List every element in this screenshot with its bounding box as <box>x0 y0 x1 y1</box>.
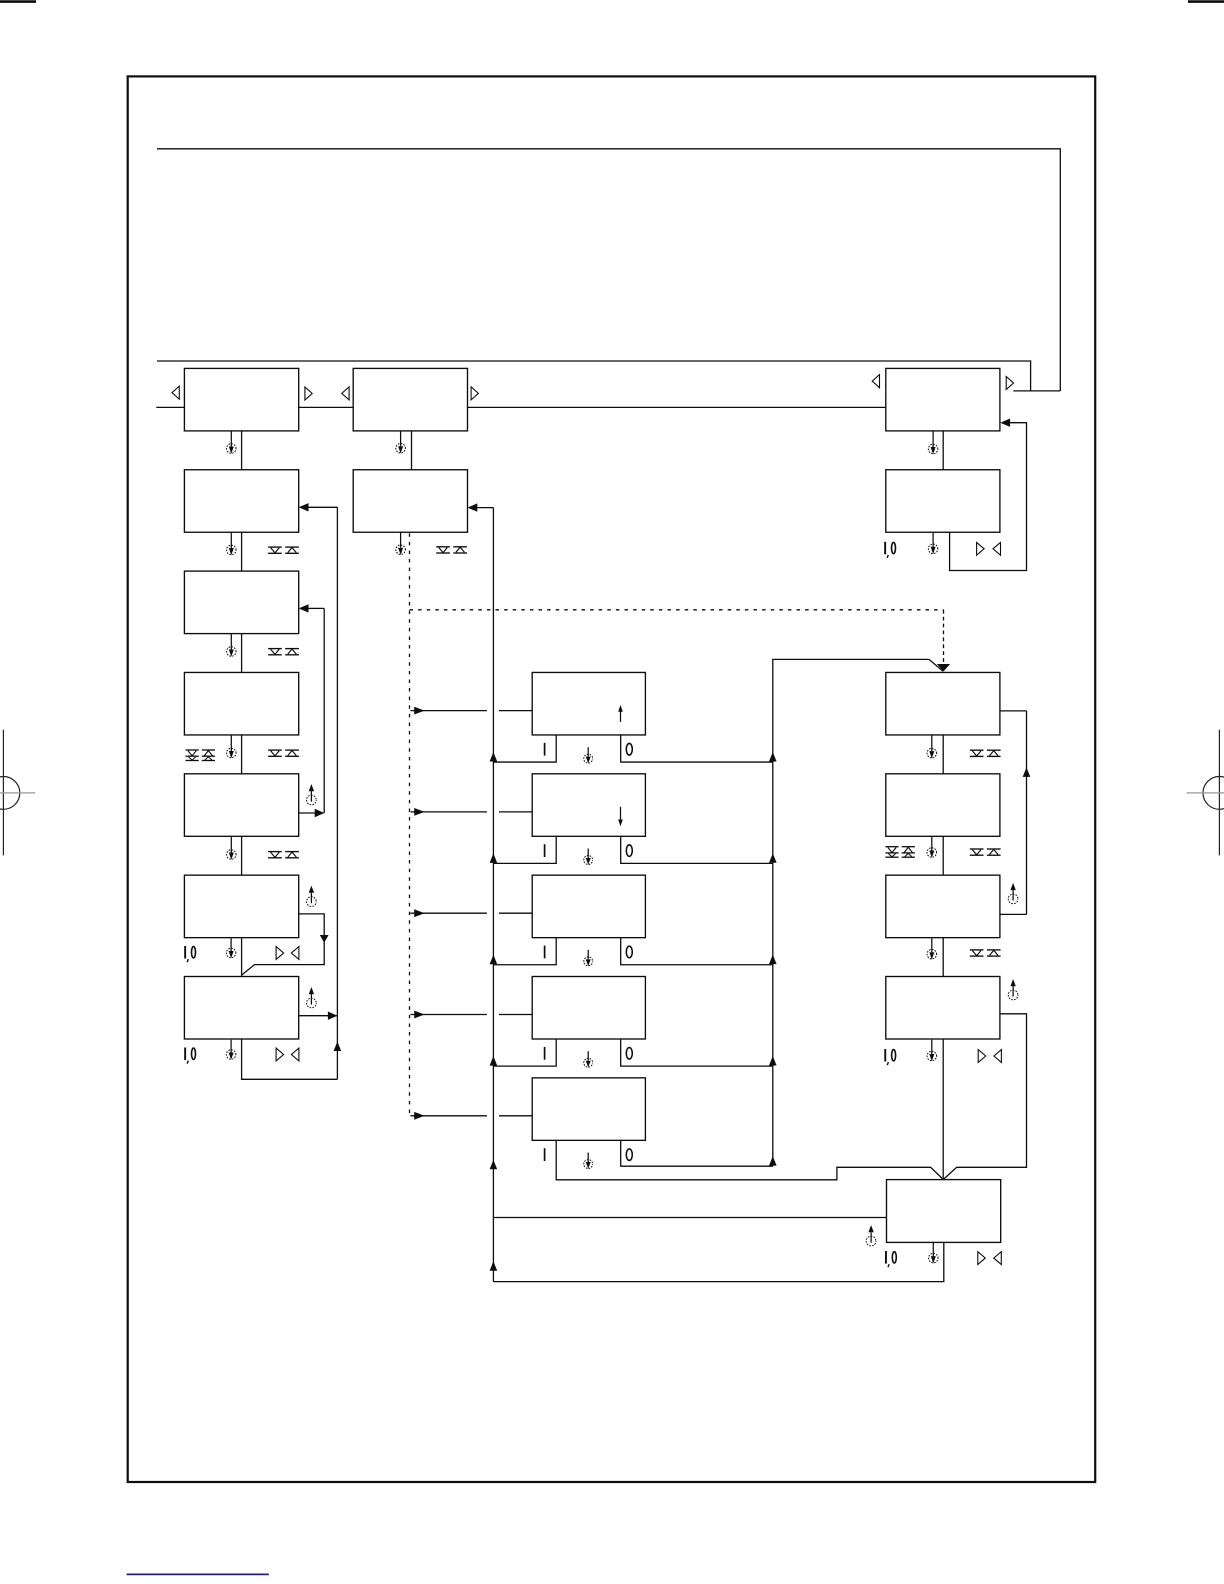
registration mark left <box>0 730 35 856</box>
key up below R5 <box>987 950 1001 956</box>
press icon below R4 <box>927 837 937 858</box>
label I below C1 <box>544 743 546 756</box>
key up below M2 <box>453 547 467 553</box>
box MENU1 <box>184 368 298 431</box>
key up below R4 <box>987 849 1001 855</box>
wire R2 loop to MENU3 <box>950 419 1027 571</box>
press icon below C1 <box>584 747 593 763</box>
key up below L4 <box>285 750 299 756</box>
box R5 <box>886 875 1000 938</box>
wire wrap-around top <box>157 149 1060 391</box>
wire return into L3 <box>299 604 325 612</box>
wire I-stub C5 to SETUP funnel <box>556 1140 943 1179</box>
wire feedback L7-L2 vertical <box>334 507 342 1079</box>
wire 0-stub C2 <box>621 836 773 863</box>
wire L3-L4 <box>241 634 243 673</box>
key up below L3 <box>285 649 299 655</box>
box L4 <box>184 672 298 735</box>
pull icon right of L5 <box>307 784 317 805</box>
wire return into M2 <box>468 503 494 511</box>
key down below L3 <box>268 649 282 655</box>
box L7 <box>184 977 298 1040</box>
pull icon right of L7 <box>307 987 317 1008</box>
box MENU2 <box>353 368 467 431</box>
wire R6 exit to SETUP funnel <box>943 1014 1026 1180</box>
box M2 <box>353 470 467 533</box>
box C1 <box>532 672 645 735</box>
wire MENU1-L2 <box>241 431 243 470</box>
wire SETUP bottom loop <box>493 1242 943 1281</box>
double key down below L4 <box>186 750 199 761</box>
wire return into L2 <box>299 503 338 511</box>
wire L6 exit loop to L7 <box>242 914 329 975</box>
press icon below C5 <box>584 1153 593 1169</box>
key down below L5 <box>268 852 282 858</box>
press icon below SETUP <box>929 1243 939 1263</box>
press icon below MENU1 <box>227 431 237 454</box>
box R4 <box>886 774 1000 837</box>
wire 0-stub C5 <box>621 1140 773 1166</box>
press icon below L5 <box>227 836 237 860</box>
wire stub left of MENU1 <box>156 406 184 408</box>
key right below R2 <box>977 542 985 555</box>
wire L7 exit to feedback <box>299 1012 338 1020</box>
pull icon right of L6 <box>307 886 317 907</box>
press icon below C4 <box>584 1051 593 1067</box>
box C3 <box>532 875 645 938</box>
key left below L7 <box>291 1048 299 1061</box>
key left below SETUP <box>994 1252 1002 1265</box>
wire big return vertical to M2 <box>490 508 498 1282</box>
box L6 <box>184 875 298 938</box>
wire L5 exit to feedback <box>299 809 325 817</box>
key left MENU2 <box>342 387 349 400</box>
wire menu overline <box>157 361 1031 391</box>
wire feedback L5-L3 vertical <box>323 608 325 813</box>
box R3 <box>886 672 1000 735</box>
key left below R2 <box>993 542 1001 555</box>
wire R6-SETUP <box>942 1039 944 1180</box>
press icon below C3 <box>584 950 593 966</box>
registration mark right <box>1187 730 1224 856</box>
wire return into SETUP left <box>493 1217 886 1219</box>
label I,0 below L7 <box>185 1048 195 1064</box>
key up below L2 <box>285 547 299 553</box>
key down below M2 <box>436 547 450 553</box>
wire feedback R5-R3 vertical <box>1023 711 1031 915</box>
crop mark top-right <box>1188 0 1224 3</box>
flow arrow on 0-collector C3 <box>769 955 777 965</box>
press icon below L4 <box>227 735 237 758</box>
double key up below L4 <box>202 750 215 761</box>
crop mark top-left <box>0 0 36 3</box>
key up below R3 <box>987 750 1001 756</box>
box R2 <box>886 470 1000 533</box>
footer rule (blue) <box>127 1573 269 1575</box>
wire branch to C2 <box>411 808 533 816</box>
key down below R3 <box>970 750 984 756</box>
press icon below MENU3 <box>928 431 938 454</box>
pull icon left of SETUP <box>866 1225 876 1246</box>
wire dashed spine below M2 <box>409 533 411 1116</box>
key left MENU3 <box>872 375 879 388</box>
press icon below R2 <box>928 533 938 554</box>
pull icon right of R5 <box>1008 883 1018 904</box>
box L3 <box>184 571 298 634</box>
box R6 <box>886 977 1000 1040</box>
press icon below R6 <box>927 1040 937 1062</box>
box SETUP <box>887 1180 1001 1243</box>
box MENU3 <box>886 368 1000 431</box>
label I below C3 <box>544 946 546 959</box>
flow arrow on 0-collector C1 <box>769 752 777 762</box>
label 0 below C4 <box>626 1048 632 1060</box>
wire MENU1-MENU2 <box>299 406 354 408</box>
wire dashed branch to R3 <box>410 610 951 672</box>
double key up below R4 <box>902 847 915 858</box>
box C5 <box>532 1078 645 1141</box>
key left below R6 <box>994 1050 1002 1063</box>
label I below C4 <box>544 1047 546 1060</box>
wire 0-stub C3 <box>621 938 773 965</box>
key right MENU2 <box>471 387 478 400</box>
key down below R4 <box>970 849 984 855</box>
label I below C5 <box>544 1148 546 1161</box>
wire R5 exit to feedback <box>1000 913 1027 915</box>
arrow down inside C2 <box>618 807 623 827</box>
wire 0-stub C1 <box>621 735 773 762</box>
wire L5-L6 <box>241 836 243 875</box>
wire branch to C4 <box>411 1011 533 1019</box>
key down below L4 <box>268 750 282 756</box>
wire 0-collector vertical to R3 <box>773 659 943 1166</box>
wire R3 right to vertical <box>1000 710 1027 712</box>
label 0 below C1 <box>626 743 632 755</box>
wire I-stub C2 <box>493 836 556 863</box>
key down below R5 <box>970 950 984 956</box>
wire branch to C5 <box>411 1112 533 1120</box>
label 0 below C3 <box>626 946 632 958</box>
press icon below L3 <box>227 634 237 657</box>
label I below C2 <box>544 844 546 857</box>
wire MENU3-R2 <box>942 431 944 470</box>
flow arrow on 0-collector C5 <box>769 1156 777 1166</box>
label 0 below C2 <box>626 845 632 857</box>
wire 0-stub C4 <box>621 1039 773 1066</box>
box L5 <box>184 774 298 837</box>
wire MENU3 right exit <box>1013 390 1060 392</box>
wire I-stub C3 <box>493 938 556 965</box>
press icon below L2 <box>227 532 237 555</box>
key right MENU3 <box>1006 377 1013 390</box>
wire R4-R5 <box>942 836 944 875</box>
press icon below L6 <box>226 938 236 958</box>
key right below SETUP <box>978 1252 986 1265</box>
wire I-stub C1 <box>493 735 556 762</box>
key right below L6 <box>276 947 284 960</box>
wire I-stub C4 <box>493 1039 556 1066</box>
wire L2-L3 <box>241 532 243 571</box>
key right MENU1 <box>305 387 312 400</box>
press icon below MENU2 <box>396 431 406 454</box>
key up below L5 <box>285 852 299 858</box>
wire MENU2-M2 <box>411 431 413 470</box>
press icon below M2 <box>396 532 406 555</box>
wire MENU2-MENU3 <box>468 406 886 408</box>
wire R5-R6 <box>942 938 944 977</box>
wire R3-R4 <box>942 735 944 774</box>
key right below R6 <box>978 1050 986 1063</box>
flow arrow on 0-collector C4 <box>769 1056 777 1066</box>
press icon below L7 <box>226 1040 236 1060</box>
press icon below R3 <box>927 735 937 758</box>
key down below L2 <box>268 547 282 553</box>
key left MENU1 <box>172 386 179 399</box>
press icon below C2 <box>584 849 593 865</box>
wire branch to C1 <box>411 707 533 715</box>
wire L4-L5 <box>241 735 243 774</box>
key right below L7 <box>276 1048 284 1061</box>
label I,0 below L6 <box>185 946 195 962</box>
outer frame <box>128 76 1095 1482</box>
box C4 <box>532 977 645 1040</box>
flow arrow on 0-collector C2 <box>769 853 777 863</box>
label I,0 below R6 <box>885 1049 895 1065</box>
key left below L6 <box>291 947 299 960</box>
press icon below R5 <box>927 938 937 959</box>
arrow up inside C1 <box>618 705 623 722</box>
box C2 <box>532 774 645 837</box>
wire L7 bottom loop <box>242 1039 338 1079</box>
label 0 below C5 <box>626 1149 632 1161</box>
wire branch to C3 <box>411 909 533 917</box>
label I,0 below SETUP <box>886 1251 896 1267</box>
label I,0 below R2 <box>885 542 895 558</box>
pull icon right of R6 <box>1008 979 1018 1000</box>
double key down below R4 <box>885 847 898 858</box>
wire L6-L7 <box>241 938 243 977</box>
box L2 <box>184 470 298 533</box>
